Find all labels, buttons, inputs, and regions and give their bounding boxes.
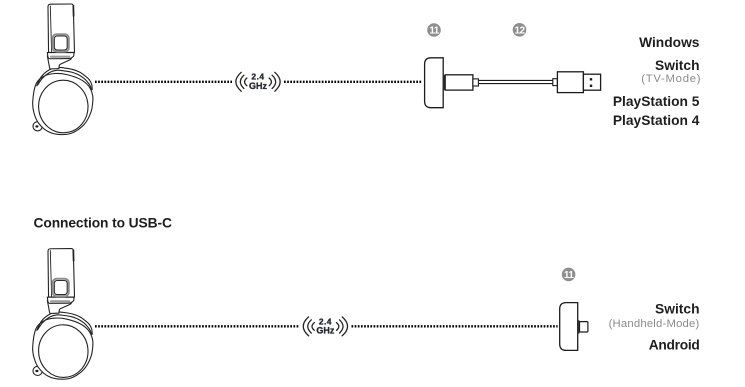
adapter cable: cable lower line	[478, 83, 553, 85]
callout badge 11 (top dongle)	[427, 23, 441, 37]
svg-text:Android: Android	[649, 338, 700, 353]
USB-C dongle U11 body (bottom)	[560, 303, 578, 351]
2.4GHz wireless symbol (bottom)	[303, 316, 347, 336]
svg-text:Switch: Switch	[655, 58, 699, 73]
svg-text:12: 12	[515, 25, 526, 36]
wire: dotted RF link, headset to 2.4GHz symbol (bottom)	[95, 325, 300, 327]
callout badge 11 (bottom dongle)	[562, 268, 576, 282]
headset (top)	[33, 4, 93, 135]
USB-A plug body	[557, 72, 583, 93]
dongle USB-C plug base (dark bar, bottom)	[578, 320, 580, 333]
USB-A contact dot lower	[590, 85, 592, 87]
wire: dotted RF link, 2.4GHz symbol to dongle (bottom)	[352, 325, 558, 327]
USB-A metal shield	[583, 74, 600, 90]
USB-A contact dot upper	[590, 78, 592, 80]
wire: dotted RF link, 2.4GHz symbol to dongle	[284, 81, 422, 83]
svg-text:(TV-Mode): (TV-Mode)	[641, 73, 701, 85]
dongle USB-C plug tip (bottom)	[580, 322, 588, 332]
2.4GHz wireless symbol (top)	[236, 72, 280, 92]
headset (bottom)	[33, 249, 93, 380]
svg-text:(Handheld-Mode): (Handheld-Mode)	[609, 318, 700, 330]
svg-text:PlayStation 4: PlayStation 4	[613, 113, 700, 128]
svg-text:Windows: Windows	[639, 35, 700, 50]
adapter cable: strain relief stub (left)	[473, 79, 479, 86]
svg-text:Connection to USB-C: Connection to USB-C	[34, 216, 172, 231]
svg-text:Switch: Switch	[655, 302, 699, 317]
dongle USB-C plug inserted (dark bar)	[443, 75, 445, 90]
adapter cable: strain relief stub (right)	[553, 79, 558, 86]
callout badge 12 (adapter cable)	[513, 23, 527, 37]
wire: dotted RF link, headset to 2.4GHz symbol	[95, 81, 232, 83]
adapter cable: USB-C receptacle housing	[445, 75, 473, 90]
USB-C dongle U11 body (top)	[425, 58, 444, 108]
svg-text:PlayStation 5: PlayStation 5	[613, 94, 700, 109]
adapter cable: cable upper line	[478, 79, 553, 81]
